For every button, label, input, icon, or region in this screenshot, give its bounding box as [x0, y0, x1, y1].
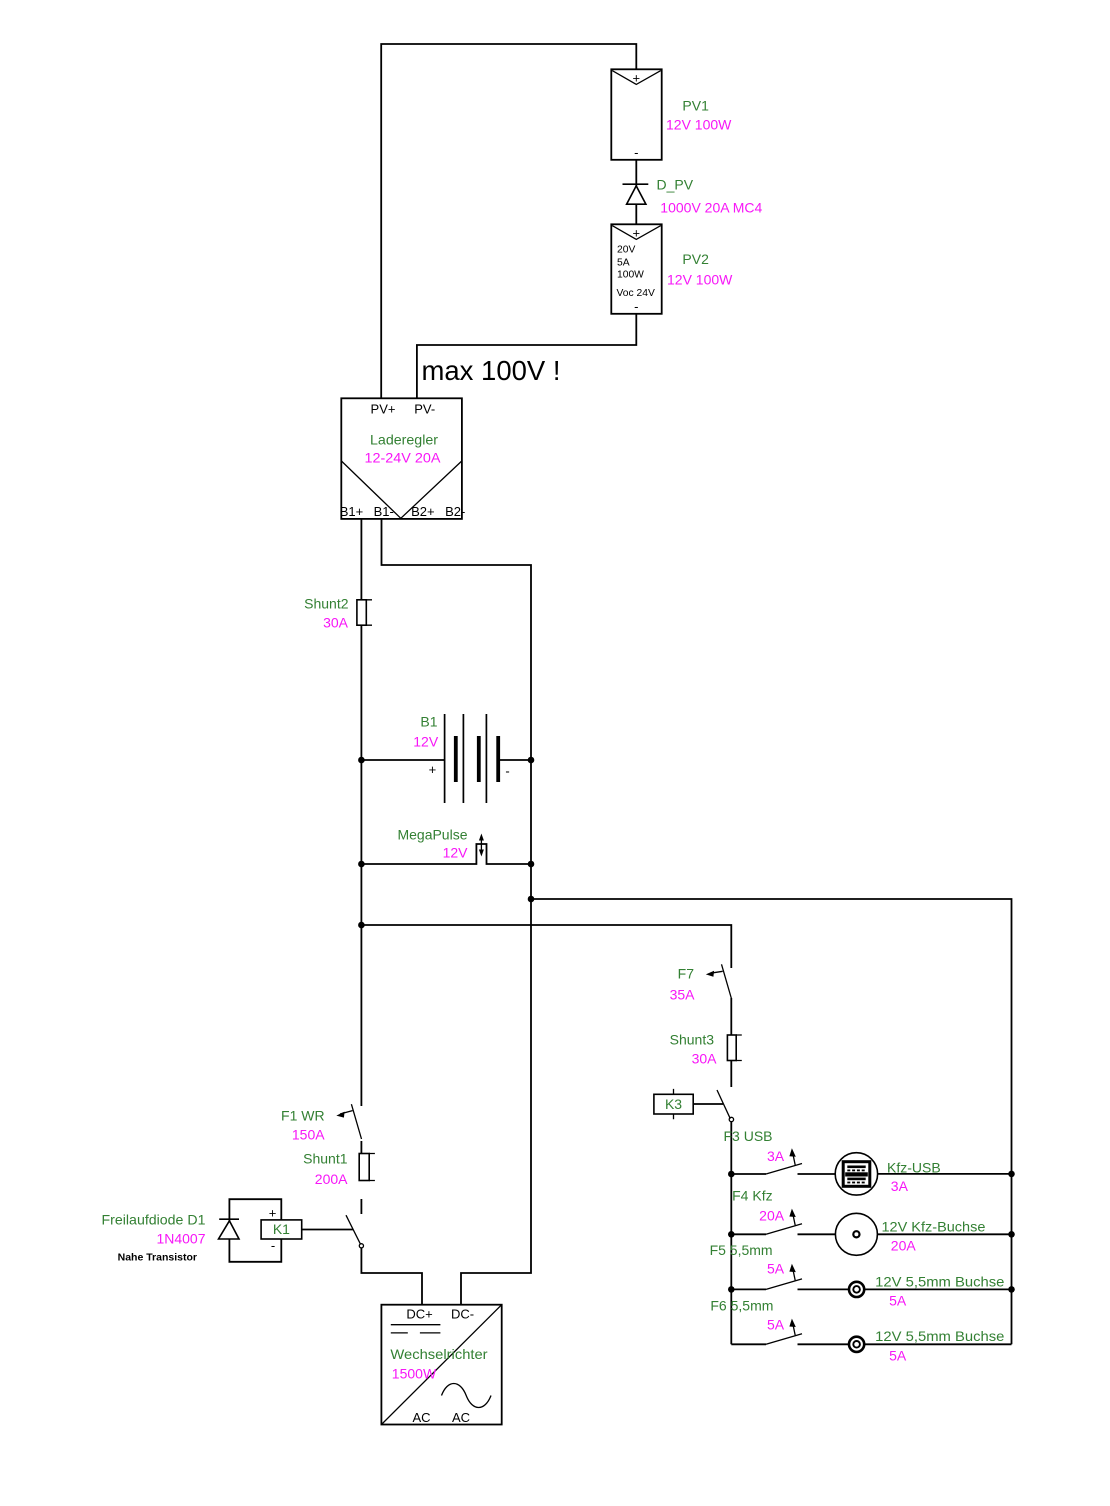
- svg-text:Shunt2: Shunt2: [304, 596, 349, 612]
- svg-text:-: -: [634, 145, 638, 160]
- svg-text:AC: AC: [452, 1410, 470, 1425]
- wire battery row left: [361, 759, 444, 761]
- wire F1 to Shunt1: [360, 1141, 362, 1154]
- svg-text:12V 5,5mm Buchse: 12V 5,5mm Buchse: [875, 1274, 1004, 1290]
- svg-text:5A: 5A: [617, 258, 630, 269]
- wire Shunt1 to K1 contact: [360, 1199, 362, 1214]
- svg-text:1500W: 1500W: [392, 1366, 437, 1382]
- wire row2 right: [877, 1233, 1011, 1235]
- svg-text:F5 5,5mm: F5 5,5mm: [710, 1242, 773, 1258]
- svg-text:B1: B1: [420, 714, 437, 730]
- svg-text:B1+: B1+: [340, 504, 364, 519]
- svg-text:+: +: [269, 1206, 277, 1221]
- relay contact of K1: [346, 1215, 364, 1248]
- wire Shunt3 to K3 contact: [730, 1061, 732, 1088]
- charge controller Laderegler 12-24V 20A: [340, 398, 466, 519]
- wire PV2- to charge controller PV-: [417, 314, 636, 399]
- node row2 right junction: [1008, 1231, 1015, 1238]
- wire B1+ rail down to fuse F1: [360, 519, 362, 1106]
- solar panel PV1: [611, 69, 661, 160]
- svg-text:12V Kfz-Buchse: 12V Kfz-Buchse: [882, 1219, 986, 1235]
- svg-text:PV+: PV+: [371, 402, 396, 417]
- svg-text:Voc 24V: Voc 24V: [617, 288, 655, 299]
- wire battery row right: [498, 759, 531, 761]
- svg-text:-: -: [271, 1238, 275, 1253]
- node F7 branch junction: [358, 922, 365, 929]
- svg-text:D_PV: D_PV: [657, 177, 694, 193]
- solar panel PV2: [611, 224, 661, 314]
- output row 1: fuse F3 USB 3A: [731, 1148, 835, 1174]
- wire row3 right: [864, 1288, 1011, 1290]
- device MegaPulse arrow: [479, 834, 484, 857]
- node row2 left junction: [728, 1231, 735, 1238]
- svg-text:30A: 30A: [692, 1051, 718, 1067]
- svg-text:20A: 20A: [891, 1238, 917, 1254]
- freewheel diode D1 loop wire: [229, 1199, 281, 1262]
- svg-text:K1: K1: [273, 1221, 290, 1237]
- output row 2: fuse F4 Kfz 20A: [731, 1209, 835, 1235]
- wire K1 contact to inverter DC+: [361, 1248, 422, 1305]
- shunt Shunt3: [727, 1035, 741, 1061]
- svg-text:max 100V !: max 100V !: [422, 355, 561, 386]
- svg-text:PV-: PV-: [414, 402, 435, 417]
- svg-text:K3: K3: [665, 1096, 682, 1112]
- svg-text:Shunt1: Shunt1: [303, 1151, 348, 1167]
- node row1 right junction: [1008, 1171, 1015, 1178]
- svg-text:12V 5,5mm Buchse: 12V 5,5mm Buchse: [875, 1328, 1004, 1344]
- svg-text:PV2: PV2: [682, 251, 709, 267]
- diode Freilaufdiode D1: [219, 1219, 240, 1239]
- wire PV1+ top run to charge controller PV+: [381, 44, 636, 398]
- node battery row left junction: [358, 757, 365, 764]
- svg-text:Laderegler: Laderegler: [370, 432, 438, 448]
- wire K1 to contact lever: [302, 1229, 353, 1231]
- svg-text:MegaPulse: MegaPulse: [397, 827, 467, 843]
- svg-text:AC: AC: [412, 1410, 430, 1425]
- wire B1- to negative rail down to inverter DC-: [382, 519, 532, 1305]
- svg-text:+: +: [633, 226, 641, 241]
- socket Kfz-USB: [835, 1153, 877, 1195]
- svg-text:100W: 100W: [617, 270, 644, 281]
- shunt Shunt1: [359, 1154, 375, 1181]
- svg-text:-: -: [634, 299, 638, 314]
- wire row4 right: [864, 1343, 1011, 1345]
- svg-text:PV1: PV1: [682, 98, 709, 114]
- svg-text:12-24V 20A: 12-24V 20A: [365, 450, 442, 466]
- svg-text:DC+: DC+: [406, 1307, 432, 1322]
- svg-text:F1 WR: F1 WR: [281, 1108, 325, 1124]
- inverter Wechselrichter 1500W: [381, 1305, 501, 1425]
- svg-text:30A: 30A: [323, 615, 349, 631]
- svg-text:5A: 5A: [889, 1348, 907, 1364]
- fuse F1 WR 150A: [336, 1104, 361, 1139]
- svg-text:Freilaufdiode D1: Freilaufdiode D1: [102, 1212, 206, 1228]
- wire F7 to Shunt3: [730, 998, 732, 1035]
- node row1 left junction: [728, 1171, 735, 1178]
- svg-text:F3 USB: F3 USB: [723, 1128, 772, 1144]
- socket 12V Kfz-Buchse: [835, 1213, 877, 1255]
- svg-text:3A: 3A: [767, 1148, 785, 1164]
- svg-text:-: -: [505, 764, 509, 779]
- svg-text:+: +: [633, 71, 641, 86]
- svg-text:B2+: B2+: [411, 504, 435, 519]
- wire MegaPulse row with bump: [361, 844, 531, 864]
- node battery row right junction: [528, 757, 535, 764]
- svg-text:12V: 12V: [443, 845, 469, 861]
- wire PV1- to PV2+ through diode: [635, 160, 637, 225]
- relay contact of K3: [717, 1090, 734, 1122]
- wire to F7 branch: [361, 925, 731, 968]
- fuse F7 35A: [706, 964, 732, 998]
- svg-text:12V 100W: 12V 100W: [667, 272, 733, 288]
- svg-text:5A: 5A: [889, 1293, 907, 1309]
- socket 12V 5,5mm Buchse (row 4): [849, 1337, 864, 1352]
- battery B1 12V: [429, 714, 510, 803]
- svg-text:F6 5,5mm: F6 5,5mm: [710, 1298, 773, 1314]
- svg-text:B1-: B1-: [374, 504, 394, 519]
- svg-text:5A: 5A: [767, 1317, 785, 1333]
- svg-text:12V: 12V: [413, 734, 439, 750]
- svg-text:1000V 20A MC4: 1000V 20A MC4: [660, 200, 762, 216]
- svg-text:3A: 3A: [891, 1178, 909, 1194]
- shunt Shunt2: [357, 600, 372, 625]
- output row 4: fuse F6 5,5mm 5A: [731, 1319, 849, 1345]
- svg-text:Shunt3: Shunt3: [670, 1032, 715, 1048]
- svg-text:200A: 200A: [315, 1171, 348, 1187]
- svg-text:1N4007: 1N4007: [156, 1231, 205, 1247]
- wire row1 right: [878, 1173, 1012, 1175]
- svg-text:Wechselrichter: Wechselrichter: [390, 1346, 488, 1362]
- svg-text:F4 Kfz: F4 Kfz: [732, 1188, 772, 1204]
- svg-text:DC-: DC-: [451, 1307, 474, 1322]
- svg-text:35A: 35A: [670, 987, 696, 1003]
- wire K3 contact to output rows: [730, 1122, 732, 1174]
- relay coil K1: [261, 1206, 302, 1254]
- node MegaPulse right junction: [528, 861, 535, 868]
- relay coil K3: [654, 1089, 693, 1119]
- diode D_PV: [623, 184, 649, 204]
- wire to right output rail: [531, 899, 1012, 1344]
- node right branch junction: [528, 896, 535, 903]
- svg-text:150A: 150A: [292, 1127, 325, 1143]
- node row3 left junction: [728, 1286, 735, 1293]
- svg-text:20A: 20A: [759, 1208, 785, 1224]
- svg-text:Nahe Transistor: Nahe Transistor: [118, 1252, 197, 1264]
- socket 12V 5,5mm Buchse (row 3): [849, 1282, 864, 1297]
- wire left output rail: [730, 1174, 732, 1344]
- output row 3: fuse F5 5,5mm 5A: [731, 1264, 849, 1290]
- wire K3 to contact lever: [693, 1103, 723, 1105]
- svg-text:12V 100W: 12V 100W: [666, 117, 732, 133]
- svg-text:20V: 20V: [617, 245, 635, 256]
- svg-text:+: +: [429, 762, 437, 777]
- svg-text:F7: F7: [678, 966, 695, 982]
- svg-text:5A: 5A: [767, 1261, 785, 1277]
- svg-text:B2-: B2-: [445, 504, 465, 519]
- node MegaPulse left junction: [358, 861, 365, 868]
- node row3 right junction: [1008, 1286, 1015, 1293]
